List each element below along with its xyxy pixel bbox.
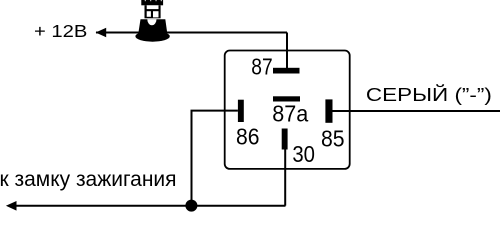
label gray wire	[366, 84, 492, 105]
wire top horizontal	[96, 32, 287, 34]
pin 87 contact bar	[273, 68, 300, 74]
pin 30 contact bar	[282, 129, 288, 150]
svg-text:30: 30	[292, 141, 315, 167]
svg-text:СЕРЫЙ (”-”): СЕРЫЙ (”-”)	[366, 84, 492, 105]
svg-text:87а: 87а	[272, 101, 308, 127]
pin 85 label	[321, 125, 345, 151]
label +12V	[34, 21, 87, 41]
relay K1 body	[225, 51, 350, 169]
junction node	[185, 200, 197, 212]
label to ignition lock	[0, 168, 177, 191]
wire top vertical to pin 87	[286, 33, 288, 70]
pin 87a contact bar	[273, 96, 300, 101]
pin 86 label	[236, 124, 260, 150]
fuse F1	[135, 0, 169, 42]
pin 85 contact bar	[325, 99, 332, 122]
pin 30 label	[292, 141, 315, 167]
wire pin 86 to junction	[192, 111, 238, 200]
svg-text:86: 86	[236, 124, 260, 150]
wire bottom horizontal	[15, 205, 286, 207]
svg-text:+ 12В: + 12В	[34, 21, 87, 41]
pin 86 contact bar	[238, 100, 244, 122]
svg-text:85: 85	[321, 125, 345, 151]
pin 87a label	[272, 101, 308, 127]
pin 87 label	[251, 54, 272, 80]
wire pin 30 down	[284, 150, 286, 206]
svg-text:к замку зажигания: к замку зажигания	[0, 168, 177, 191]
arrow to +12V	[96, 28, 107, 38]
wire pin 85 to right edge	[333, 110, 500, 112]
svg-text:87: 87	[251, 54, 272, 80]
arrow to ignition lock	[6, 201, 17, 211]
